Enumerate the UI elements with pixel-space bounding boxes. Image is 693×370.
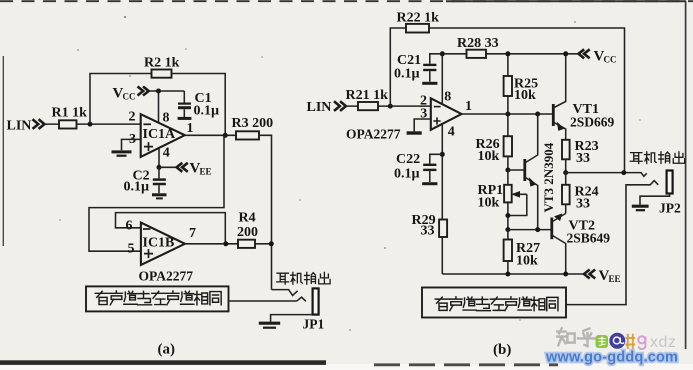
wire IC1B output to R4	[185, 243, 238, 245]
node feedback tap junction	[621, 170, 626, 175]
resistor R1 1k	[52, 106, 88, 129]
scan speckles	[59, 16, 641, 331]
right border	[685, 1, 687, 349]
ground JP2	[632, 206, 649, 210]
svg-text:EE: EE	[200, 167, 212, 177]
node VCC/pin8 junction	[156, 89, 161, 94]
label earphone output (b)	[630, 152, 684, 164]
wire output to jack tip (b)	[566, 173, 647, 177]
svg-text:0.1µ: 0.1µ	[194, 104, 220, 119]
wire R3 to headphone column	[259, 135, 272, 289]
resistor R29 33	[412, 213, 448, 239]
wire IC1A out down to IC1B pin5 loop	[89, 135, 224, 251]
resistor R22 1k	[397, 11, 440, 33]
svg-text:10k: 10k	[478, 149, 500, 164]
svg-text:10k: 10k	[516, 254, 538, 269]
wire top rail R28/VCC	[442, 53, 578, 55]
node IC1B output junction	[223, 241, 228, 246]
svg-text:VT3 2N3904: VT3 2N3904	[541, 142, 556, 212]
wire pin 3 to ground	[122, 139, 141, 150]
ground pin 3	[112, 152, 132, 156]
resistor R27 10k	[504, 230, 541, 274]
capacitor C1 0.1u	[178, 91, 219, 119]
resistor R23 33	[562, 139, 599, 173]
bottom border dashes	[374, 363, 558, 366]
svg-text:0.1µ: 0.1µ	[124, 180, 150, 195]
wire R4 to headphone column	[255, 243, 272, 245]
power VCC (b)	[579, 49, 617, 65]
svg-text:R3 200: R3 200	[232, 116, 274, 131]
svg-text:C22: C22	[396, 152, 420, 167]
wire pin 4 vertical to R29 (b)	[441, 124, 443, 274]
node output junction (a)	[223, 133, 228, 138]
connector JP1 plug	[303, 288, 325, 331]
node R23/R24 output junction	[563, 170, 568, 175]
op-amp OPA2277 (b)	[420, 90, 472, 140]
svg-text:2: 2	[129, 110, 136, 125]
svg-text:1: 1	[187, 121, 194, 136]
resistor R21 1k	[346, 88, 389, 110]
node R25 top junction	[505, 51, 510, 56]
power VCC (a)	[113, 86, 149, 102]
wire VEE rail (b)	[442, 273, 584, 275]
wire pin 3 to ground (b)	[414, 119, 431, 131]
svg-text:0.1µ: 0.1µ	[394, 67, 420, 82]
watermark url www.go-gddq.com	[545, 350, 678, 366]
watermark pink glyph	[638, 336, 645, 349]
wire VT2 base row	[508, 229, 551, 231]
svg-text:(b): (b)	[493, 342, 511, 358]
svg-text:JP1: JP1	[303, 317, 325, 332]
node VT1 collector/VCC junction	[563, 51, 568, 56]
node VT3 emitter junction	[535, 227, 540, 232]
svg-text:4: 4	[448, 125, 455, 140]
svg-text:8: 8	[444, 90, 451, 105]
watermark zhihu characters	[557, 328, 596, 346]
svg-text:5: 5	[128, 242, 135, 257]
node LIN input label (b)	[307, 100, 346, 115]
svg-text:R22 1k: R22 1k	[397, 11, 440, 26]
jack JP1 tip contact	[272, 290, 298, 296]
wire pin 8 vertical (b)	[441, 54, 443, 105]
box right channel note (b)	[422, 288, 566, 318]
svg-text:IC1B: IC1B	[143, 235, 175, 250]
top border solid segment	[446, 0, 686, 2]
transistor VT3 2N3904	[525, 114, 556, 230]
bottom margin strip	[0, 364, 693, 370]
label text right-channel-same-as-left (b)	[435, 297, 558, 311]
wire feedback loop up from node	[90, 74, 225, 136]
capacitor C21 0.1u	[394, 53, 442, 83]
svg-text:OPA2277: OPA2277	[346, 127, 401, 142]
svg-text:CC: CC	[604, 55, 617, 65]
node VT2 base row junction	[505, 227, 510, 232]
svg-text:R21 1k: R21 1k	[346, 88, 389, 103]
left border	[2, 56, 4, 246]
potentiometer RP1 10k	[478, 170, 527, 230]
node VT2 collector/VEE junction	[563, 272, 568, 277]
node junction R1/feedback	[88, 122, 93, 127]
resistor R26 10k	[476, 114, 513, 170]
ground JP1	[259, 323, 280, 328]
svg-text:6: 6	[126, 219, 133, 234]
wire box to jack sleeve (b)	[566, 181, 658, 305]
wire JP1 sleeve to ground	[271, 315, 313, 322]
svg-text:R2 1k: R2 1k	[144, 56, 180, 71]
wire LIN to R21 to pin2	[346, 105, 431, 107]
wire IC1B pin6 feedback loop	[116, 213, 226, 244]
wire VCC rail (a)	[149, 90, 185, 92]
bottom border solid	[0, 360, 326, 365]
node C21 junction	[440, 51, 445, 56]
svg-text:R28 33: R28 33	[457, 36, 499, 51]
watermark orange strokes	[626, 334, 636, 349]
box right channel note (a)	[86, 286, 229, 311]
svg-text:LIN: LIN	[7, 119, 32, 134]
svg-text:33: 33	[421, 224, 435, 239]
wire box to jack sleeve (a)	[229, 297, 306, 301]
wire LIN to R1 to IC1A pin2	[44, 123, 140, 125]
svg-text:www.go-gddq.com: www.go-gddq.com	[545, 350, 678, 366]
transistor VT1 2SD669	[553, 54, 614, 140]
watermark green logo blob	[596, 335, 609, 348]
node output/R25 junction	[505, 112, 510, 117]
svg-text:JP2: JP2	[659, 201, 681, 216]
resistor R4 200	[237, 211, 258, 248]
power VEE (b)	[584, 268, 621, 284]
node pin4/VEE junction	[157, 165, 162, 170]
power VEE (a)	[159, 161, 212, 177]
node C22 junction	[440, 152, 445, 157]
svg-text:xdz: xdz	[650, 334, 676, 351]
node RP1 wiper junction	[505, 213, 510, 218]
top border dashed line	[0, 0, 693, 2]
svg-text:0.1µ: 0.1µ	[394, 167, 420, 182]
ground pin 3 (b)	[407, 131, 422, 134]
svg-text:2SB649: 2SB649	[567, 231, 611, 246]
wire feedback R22 loop	[390, 28, 624, 173]
svg-text:10k: 10k	[514, 88, 536, 103]
svg-text:10k: 10k	[478, 196, 500, 211]
wire IC1A output to R3	[185, 134, 236, 136]
resistor R3 200	[232, 116, 274, 140]
watermark blue at-sign	[609, 333, 625, 349]
op-amp IC1A	[129, 110, 194, 161]
wire VT3 base	[508, 169, 524, 171]
svg-text:IC1A: IC1A	[143, 127, 177, 142]
svg-text:33: 33	[576, 151, 590, 166]
svg-text:LIN: LIN	[307, 100, 332, 115]
svg-text:CC: CC	[123, 92, 136, 102]
svg-text:EE: EE	[609, 274, 621, 284]
svg-text:(a): (a)	[158, 342, 176, 358]
node output/VT3 collector junction	[535, 112, 540, 117]
wire pin 4	[158, 148, 160, 167]
capacitor C2 0.1u	[124, 167, 167, 198]
label earphone output (a)	[277, 272, 330, 284]
node VT3 base junction	[505, 168, 510, 173]
svg-text:2SD669: 2SD669	[570, 115, 615, 130]
resistor R2 1k	[144, 56, 180, 78]
svg-text:OPA2277: OPA2277	[139, 269, 194, 284]
node R4/column junction	[269, 241, 274, 246]
node R27/VEE junction	[505, 272, 510, 277]
svg-text:4: 4	[163, 146, 170, 161]
resistor R24 33	[562, 173, 599, 214]
transistor VT2 2SB649	[552, 213, 610, 274]
wire pin 8	[158, 91, 160, 123]
svg-text:8: 8	[163, 111, 170, 126]
op-amp IC1B	[126, 219, 197, 266]
svg-text:1: 1	[465, 99, 472, 114]
capacitor C22 0.1u	[394, 152, 442, 184]
svg-text:200: 200	[237, 225, 258, 240]
svg-text:R4: R4	[239, 211, 256, 226]
connector JP2 plug	[659, 171, 681, 216]
resistor R28 33	[457, 36, 499, 58]
node LIN input label (a)	[7, 119, 45, 134]
node R21/feedback junction	[388, 104, 393, 109]
svg-text:33: 33	[576, 197, 590, 212]
resistor R25 10k	[504, 54, 539, 114]
label text right-channel-same-as-left (a)	[95, 291, 221, 305]
svg-text:7: 7	[189, 226, 196, 241]
wire op-amp output row (b)	[462, 113, 553, 115]
svg-text:R1 1k: R1 1k	[52, 106, 88, 121]
wire JP2 sleeve to ground	[640, 194, 670, 205]
